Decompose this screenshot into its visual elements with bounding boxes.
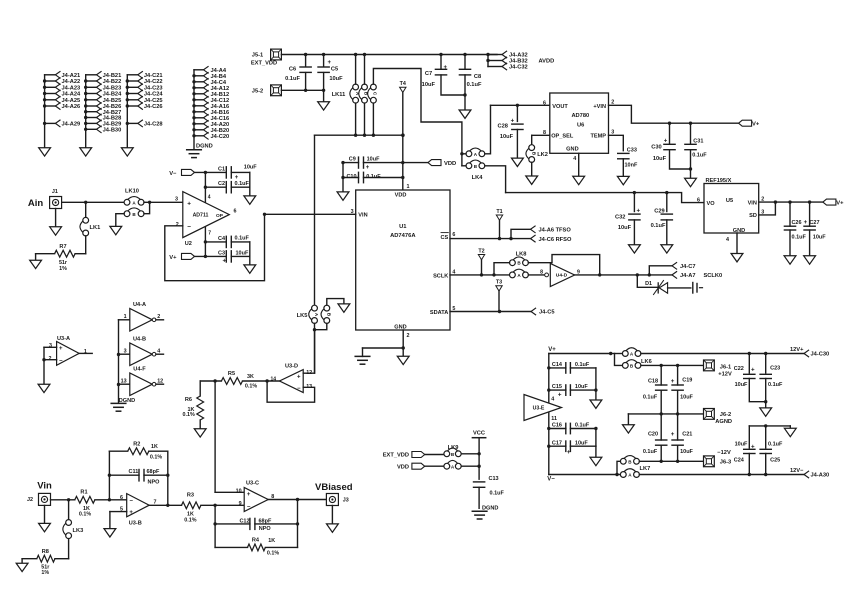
svg-text:C17: C17 [552,440,562,446]
svg-text:J4-B24: J4-B24 [103,92,122,98]
svg-text:T2: T2 [478,248,484,254]
svg-text:0.1%: 0.1% [150,455,162,461]
svg-text:+12V: +12V [718,372,732,378]
svg-text:0.1uF: 0.1uF [768,382,783,388]
svg-text:SCLK0: SCLK0 [704,273,723,279]
svg-text:10uF: 10uF [813,235,826,241]
svg-text:R2: R2 [133,442,140,448]
svg-text:GND: GND [394,325,406,331]
svg-text:LK1: LK1 [90,225,101,231]
svg-text:C22: C22 [734,366,744,372]
svg-text:J4-C21: J4-C21 [144,73,163,79]
svg-text:LK5: LK5 [297,313,308,319]
svg-text:J4-C5: J4-C5 [539,310,555,316]
svg-text:J4-C28: J4-C28 [144,122,163,128]
svg-text:6: 6 [697,198,700,204]
svg-text:10uF: 10uF [680,394,693,400]
svg-text:10uF: 10uF [735,441,748,447]
svg-text:NPO: NPO [259,526,272,532]
svg-text:+: + [366,165,370,171]
svg-text:C23: C23 [770,366,780,372]
svg-text:C3: C3 [218,251,225,257]
svg-text:12V+: 12V+ [790,347,804,353]
svg-text:VDD: VDD [395,192,407,198]
svg-text:C24: C24 [734,457,745,463]
svg-text:10uF: 10uF [422,82,436,88]
svg-text:68pF: 68pF [147,469,160,475]
svg-text:14: 14 [270,376,276,382]
svg-text:0.1uF: 0.1uF [467,82,482,88]
svg-text:VOUT: VOUT [552,104,568,110]
svg-text:10uF: 10uF [500,134,514,140]
svg-text:J2: J2 [27,497,33,503]
svg-text:0.1%: 0.1% [267,550,279,556]
svg-text:R8: R8 [42,549,49,555]
svg-text:J5-1: J5-1 [252,53,263,59]
svg-text:+: + [567,449,571,456]
svg-text:R1: R1 [80,489,87,495]
svg-text:4: 4 [726,237,729,243]
svg-text:T3: T3 [496,280,502,286]
svg-text:U3-A: U3-A [57,336,70,342]
svg-text:T1: T1 [496,209,502,215]
svg-text:LK10: LK10 [125,189,139,195]
svg-text:+: + [558,391,562,398]
svg-text:+: + [751,443,755,450]
svg-text:LK4: LK4 [472,175,484,181]
svg-text:V+: V+ [836,201,844,207]
svg-text:6: 6 [543,100,546,106]
svg-text:1K: 1K [151,444,158,450]
svg-text:J4-A25: J4-A25 [62,98,81,104]
svg-text:J4-C23: J4-C23 [144,85,163,91]
svg-text:C10: C10 [346,174,356,180]
svg-text:1: 1 [124,314,127,320]
svg-text:J4-C25: J4-C25 [144,98,163,104]
svg-text:6: 6 [120,495,123,501]
svg-text:4: 4 [551,396,554,402]
svg-text:J4-C7: J4-C7 [680,264,696,270]
svg-text:R6: R6 [185,397,192,403]
svg-text:10uF: 10uF [244,164,257,170]
svg-text:1K: 1K [268,538,275,544]
svg-text:J4-B25: J4-B25 [103,98,122,104]
svg-text:Ain: Ain [28,198,44,209]
svg-text:0.1uF: 0.1uF [692,153,707,159]
svg-text:C21: C21 [682,432,692,438]
svg-text:J4-C22: J4-C22 [144,79,163,85]
svg-text:0.1%: 0.1% [79,511,91,517]
svg-text:AD780: AD780 [571,113,589,119]
svg-text:C12: C12 [239,519,249,525]
svg-text:4: 4 [573,156,576,162]
svg-text:J5-2: J5-2 [252,88,263,94]
svg-text:8: 8 [540,269,543,275]
svg-text:+: + [223,258,227,264]
svg-text:U4-A: U4-A [133,302,146,308]
svg-text:J4-A24: J4-A24 [62,92,81,98]
svg-text:−: − [297,386,301,392]
svg-text:C5: C5 [331,66,338,72]
svg-text:C27: C27 [809,220,819,226]
svg-text:10uF: 10uF [575,384,588,390]
svg-text:J6-1: J6-1 [720,364,731,370]
svg-text:C26: C26 [791,220,801,226]
svg-text:C18: C18 [648,379,658,385]
svg-text:T4: T4 [400,81,406,87]
svg-text:TEMP: TEMP [590,134,606,140]
svg-text:1: 1 [407,184,410,190]
svg-text:J4-A29: J4-A29 [62,122,81,128]
svg-text:U5: U5 [726,198,733,204]
svg-text:+: + [804,220,808,226]
svg-text:VBiased: VBiased [315,482,353,493]
svg-text:J4-A30: J4-A30 [811,473,830,479]
svg-text:10uF: 10uF [735,382,748,388]
svg-text:4: 4 [208,194,211,200]
svg-text:0.1uF: 0.1uF [768,441,783,447]
svg-text:+: + [247,492,251,498]
svg-text:U4-F: U4-F [133,366,146,372]
svg-text:C14: C14 [552,362,563,368]
svg-text:J4-A23: J4-A23 [62,85,81,91]
svg-text:1: 1 [84,349,87,355]
svg-text:−: − [59,359,63,365]
svg-text:AGND: AGND [715,419,732,425]
svg-text:1%: 1% [59,266,67,272]
svg-text:12V−: 12V− [790,468,804,474]
svg-text:0.1uF: 0.1uF [643,449,658,455]
svg-text:GND: GND [733,228,745,234]
svg-text:J4-B21: J4-B21 [103,73,122,79]
svg-text:10: 10 [236,489,242,495]
svg-text:C28: C28 [497,123,507,129]
svg-text:VDD: VDD [444,161,456,167]
svg-text:OP_SEL: OP_SEL [551,134,574,140]
svg-text:REF195/X: REF195/X [706,178,732,184]
svg-text:+: + [297,374,301,380]
svg-text:C19: C19 [682,377,692,383]
svg-text:0.1uF: 0.1uF [792,235,807,241]
svg-text:J4-C30: J4-C30 [811,352,830,358]
svg-text:+: + [671,378,675,385]
svg-text:LK7: LK7 [640,466,651,472]
svg-text:0.1%: 0.1% [184,518,196,524]
svg-text:+: + [328,60,332,66]
svg-text:C25: C25 [770,457,780,463]
svg-text:+: + [751,366,755,373]
svg-text:U6: U6 [577,122,584,128]
svg-text:U3-C: U3-C [246,481,259,487]
svg-text:C4: C4 [218,236,226,242]
svg-text:J4-A22: J4-A22 [62,79,81,85]
svg-text:0.1uF: 0.1uF [285,76,300,82]
svg-text:10nF: 10nF [625,162,638,168]
svg-text:+: + [664,139,668,145]
svg-text:0.1uF: 0.1uF [575,362,590,368]
svg-text:C20: C20 [648,432,658,438]
svg-text:+VIN: +VIN [593,104,606,110]
svg-text:C7: C7 [425,71,432,77]
svg-text:U4-D: U4-D [556,273,568,279]
svg-text:J4-A26: J4-A26 [62,104,81,110]
svg-text:V−: V− [547,476,555,482]
svg-text:J3: J3 [343,498,349,504]
svg-text:J4-B30: J4-B30 [103,127,122,133]
svg-text:0.1uF: 0.1uF [651,223,666,229]
svg-text:+: + [671,431,675,438]
svg-text:C31: C31 [693,139,703,145]
svg-text:J4-B23: J4-B23 [103,85,122,91]
svg-text:J4-B22: J4-B22 [103,79,122,85]
svg-text:C1: C1 [218,166,225,172]
svg-text:C11: C11 [129,469,139,475]
svg-text:10uF: 10uF [367,156,380,162]
svg-text:9: 9 [239,501,242,507]
svg-text:3K: 3K [247,374,254,380]
svg-text:J6-3: J6-3 [720,460,731,466]
svg-text:DGND: DGND [196,143,213,149]
svg-text:U3-D: U3-D [285,363,298,369]
svg-text:VIN: VIN [358,213,367,219]
svg-text:10uF: 10uF [680,449,693,455]
svg-text:C30: C30 [651,145,661,151]
svg-text:R5: R5 [228,371,235,377]
svg-text:J6-2: J6-2 [720,412,731,418]
svg-text:0.1uF: 0.1uF [575,423,590,429]
svg-text:13: 13 [121,378,127,384]
svg-text:LK2: LK2 [537,152,548,158]
svg-text:R4: R4 [252,537,260,543]
svg-text:0.1uF: 0.1uF [366,174,381,180]
svg-text:OP: OP [216,213,224,219]
svg-text:C29: C29 [654,208,664,214]
svg-text:C9: C9 [349,156,356,162]
svg-text:C16: C16 [552,423,562,429]
svg-text:+: + [511,119,515,125]
svg-text:VDD: VDD [397,464,409,470]
svg-text:J1: J1 [52,189,58,195]
svg-text:J4-C26: J4-C26 [144,104,163,110]
svg-text:3: 3 [124,348,127,354]
svg-text:+: + [235,175,239,181]
svg-text:J4-C6 RFSO: J4-C6 RFSO [539,237,572,243]
svg-text:NPO: NPO [148,479,161,485]
svg-text:U1: U1 [399,224,407,230]
svg-text:V+: V+ [548,347,556,353]
svg-text:3: 3 [175,197,178,203]
svg-text:Vin: Vin [37,481,52,492]
svg-text:CS: CS [441,235,449,241]
svg-text:7: 7 [208,231,211,237]
svg-text:VO: VO [707,201,716,207]
svg-text:6: 6 [234,209,237,215]
svg-text:C6: C6 [289,66,296,72]
svg-text:2: 2 [407,333,410,339]
svg-text:J4-C32: J4-C32 [509,65,528,71]
svg-text:10uF: 10uF [618,225,632,231]
svg-text:LK6: LK6 [641,359,652,365]
svg-text:6: 6 [452,232,455,238]
svg-text:GND: GND [566,147,578,153]
svg-text:VIN: VIN [748,201,757,207]
svg-text:+: + [444,65,448,71]
svg-text:U3-E: U3-E [533,406,545,412]
svg-text:C2: C2 [218,181,225,187]
svg-text:−12V: −12V [717,450,731,456]
svg-text:1%: 1% [41,570,49,576]
svg-text:10uF: 10uF [329,76,343,82]
svg-text:EXT_VDD: EXT_VDD [383,453,409,459]
svg-text:LK8: LK8 [516,251,527,257]
svg-text:+: + [637,209,641,215]
svg-text:J4-A6 TFSO: J4-A6 TFSO [539,228,572,234]
svg-text:10uF: 10uF [575,440,588,446]
svg-text:−: − [247,505,251,511]
svg-text:+: + [129,510,133,516]
svg-text:C8: C8 [474,74,481,80]
svg-text:V−: V− [169,171,177,177]
svg-text:+: + [59,346,63,352]
svg-text:C32: C32 [615,214,625,220]
svg-text:J4-A7: J4-A7 [680,273,696,279]
svg-text:V+: V+ [169,255,177,261]
svg-text:AD711: AD711 [193,213,209,219]
svg-text:2: 2 [176,222,179,228]
svg-text:J4-C24: J4-C24 [144,92,163,98]
svg-text:−: − [129,498,133,504]
svg-text:J4-C20: J4-C20 [211,134,230,140]
svg-text:D1: D1 [645,281,652,287]
svg-text:0.1uF: 0.1uF [490,490,505,496]
svg-text:SCLK: SCLK [433,273,448,279]
svg-text:U3-B: U3-B [129,521,142,527]
svg-text:SD: SD [749,213,757,219]
svg-text:C13: C13 [489,476,499,482]
svg-text:EXT_VDD: EXT_VDD [251,60,277,66]
svg-text:0.1uF: 0.1uF [643,394,658,400]
svg-text:R3: R3 [187,492,194,498]
svg-text:0.1%: 0.1% [183,412,195,418]
svg-text:−: − [187,224,191,231]
svg-text:11: 11 [551,416,557,422]
svg-text:68pF: 68pF [259,519,272,525]
svg-text:SDATA: SDATA [430,310,448,316]
svg-text:AD7476A: AD7476A [390,233,416,239]
svg-text:0.1%: 0.1% [245,384,257,390]
svg-text:0.1uF: 0.1uF [235,181,250,187]
svg-text:LK3: LK3 [73,528,84,534]
svg-text:LK11: LK11 [332,92,346,98]
svg-text:C15: C15 [552,384,562,390]
svg-text:+: + [187,200,191,207]
svg-text:VCC: VCC [473,431,485,437]
svg-text:C33: C33 [627,147,637,153]
svg-text:AVDD: AVDD [539,59,555,65]
svg-text:10uF: 10uF [653,156,667,162]
svg-text:J4-A21: J4-A21 [62,73,81,79]
svg-text:10uF: 10uF [236,251,249,257]
svg-text:U2: U2 [185,241,192,247]
svg-text:U4-B: U4-B [133,336,146,342]
svg-text:3: 3 [49,343,52,349]
svg-text:R7: R7 [59,244,66,250]
svg-text:0.1uF: 0.1uF [235,236,250,242]
svg-text:V+: V+ [752,122,760,128]
